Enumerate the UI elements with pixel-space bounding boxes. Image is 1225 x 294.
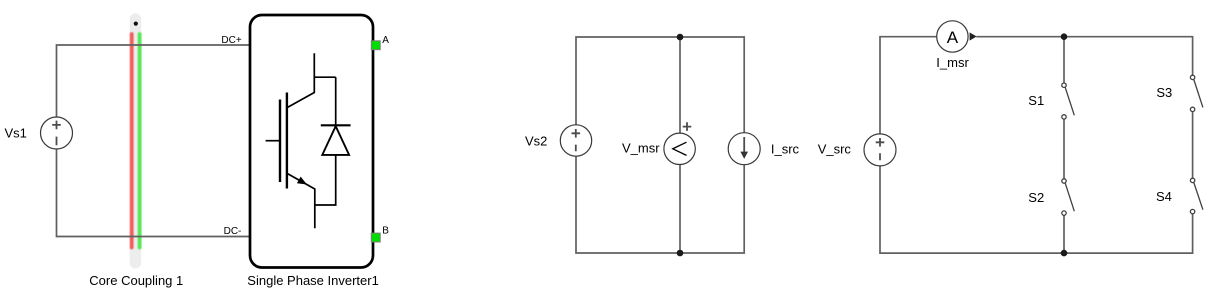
- port B (green terminal): [371, 233, 380, 242]
- diode (inside inverter icon): [315, 77, 351, 205]
- subsystem Single Phase Inverter1 (rounded box): [250, 15, 373, 268]
- svg-text:Single Phase Inverter1: Single Phase Inverter1: [247, 273, 379, 288]
- svg-text:S4: S4: [1156, 189, 1172, 204]
- wire S2 bottom to node N4: [1063, 213, 1065, 253]
- svg-text:B: B: [382, 226, 389, 237]
- wire S3 bottom to S4 top: [1192, 109, 1194, 180]
- voltmeter V_msr: [664, 122, 695, 164]
- switch S3: [1190, 75, 1203, 111]
- svg-text:DC+: DC+: [221, 35, 241, 46]
- current source I_src: [728, 133, 760, 165]
- svg-text:DC-: DC-: [224, 226, 242, 237]
- svg-text:Core Coupling 1: Core Coupling 1: [89, 273, 183, 288]
- svg-text:Vs2: Vs2: [525, 134, 547, 149]
- node N1 (junction dot): [677, 34, 684, 41]
- voltage source Vs2: [560, 125, 591, 156]
- core coupling CC1 body (pill): [130, 13, 142, 268]
- wire node N1 to I_src top: [680, 37, 744, 133]
- wire node N4 to S4 bottom: [1064, 212, 1193, 254]
- wire S1 bottom to S2 top: [1063, 117, 1065, 181]
- IGBT (inside inverter icon): [266, 53, 336, 228]
- node N2 (junction dot): [677, 250, 684, 257]
- wire V_src top to ammeter: [880, 37, 937, 134]
- svg-text:S3: S3: [1156, 85, 1172, 100]
- switch S2: [1062, 179, 1075, 216]
- svg-text:V_src: V_src: [818, 142, 852, 157]
- wire Vs1 top to DC+ rail: [57, 45, 250, 117]
- node N3 (junction dot): [1061, 33, 1068, 40]
- svg-text:Vs1: Vs1: [5, 126, 27, 141]
- port A (green terminal): [371, 41, 380, 50]
- wire Vs2 bottom to node N2: [576, 156, 680, 253]
- core coupling winding P (red stripe): [130, 34, 134, 248]
- svg-text:A: A: [947, 28, 959, 47]
- wire Vs2 top to node N1: [576, 37, 680, 125]
- svg-text:V_msr: V_msr: [622, 141, 660, 156]
- wire node N1 to V_msr top: [679, 37, 681, 133]
- core coupling polarity dot: [134, 22, 138, 26]
- switch S1: [1062, 83, 1075, 119]
- core coupling winding S (green stripe): [138, 34, 142, 248]
- wire node N2 to I_src bottom: [680, 165, 744, 253]
- wire Vs1 bottom to DC- rail: [57, 149, 250, 237]
- svg-text:S2: S2: [1028, 190, 1044, 205]
- svg-text:S1: S1: [1028, 93, 1044, 108]
- voltage source V_src: [864, 134, 896, 166]
- wire node N3 to S3 top: [1064, 37, 1193, 78]
- svg-text:I_msr: I_msr: [936, 55, 969, 70]
- ammeter I_msr: [937, 21, 977, 52]
- svg-text:I_src: I_src: [771, 141, 800, 156]
- wire V_msr bottom to node N2: [679, 164, 681, 253]
- voltage source Vs1: [41, 117, 73, 149]
- wire node N3 to S1 top: [1063, 37, 1065, 85]
- switch S4: [1190, 178, 1203, 214]
- wire V_src bottom to node N4: [880, 166, 1064, 253]
- svg-text:A: A: [382, 35, 389, 46]
- wire ammeter to node N3: [976, 36, 1064, 38]
- node N4 (junction dot): [1061, 250, 1068, 257]
